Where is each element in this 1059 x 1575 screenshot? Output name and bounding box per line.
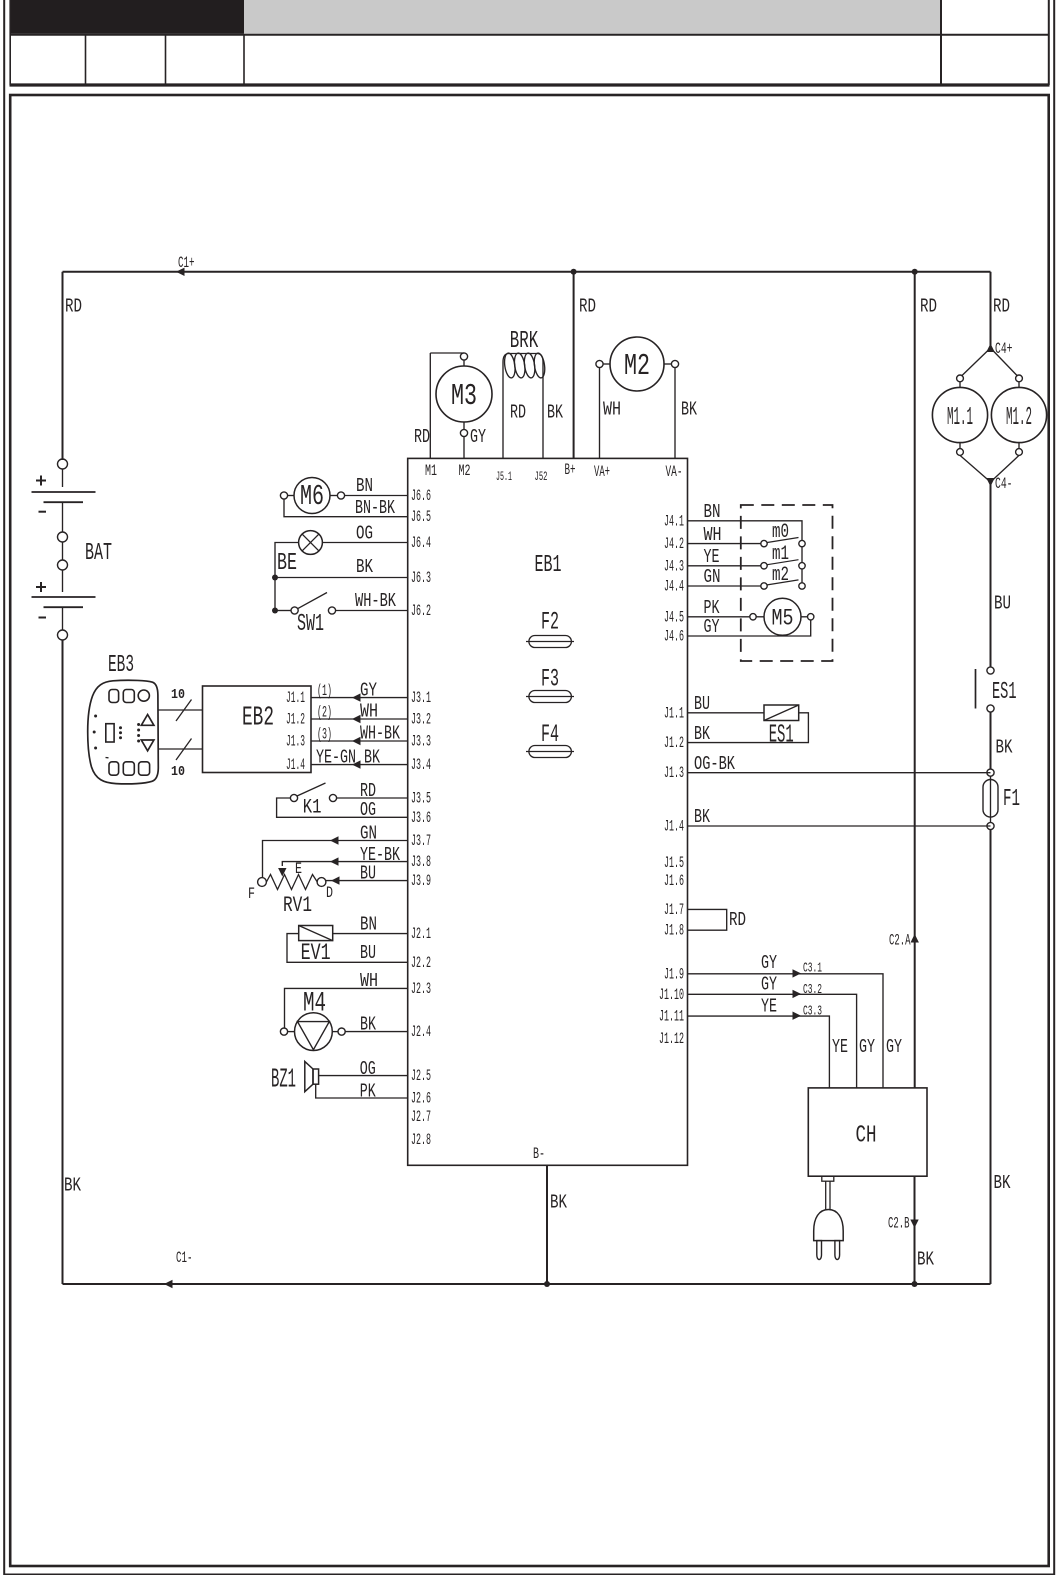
wire BU J1.1 to ES1 coil	[688, 712, 765, 714]
wire BN M6 to J6.6	[345, 495, 408, 497]
svg-text:J6.6: J6.6	[411, 487, 431, 505]
wire BK F1 to bottom rail	[990, 830, 992, 1284]
wire WH J4.2	[688, 543, 761, 545]
wire from M1.1 bottom	[960, 455, 991, 482]
svg-text:C3.1: C3.1	[803, 962, 822, 977]
wire (3) WH-BK EB2 to J3.3	[311, 740, 408, 742]
svg-text:RD: RD	[414, 426, 430, 448]
svg-text:GY: GY	[761, 974, 777, 996]
wire GY J1.9 to C3.1	[688, 974, 884, 1088]
switch ES1	[976, 667, 1017, 712]
wire C1+ top rail	[63, 271, 991, 273]
wire GY J4.6	[688, 620, 811, 636]
svg-text:ES1: ES1	[769, 720, 794, 750]
svg-text:M1: M1	[425, 462, 437, 480]
svg-text:BU: BU	[360, 862, 376, 884]
svg-text:RD: RD	[579, 296, 596, 318]
svg-text:J6.5: J6.5	[411, 508, 431, 526]
wire BK M4 to J2.4	[345, 1031, 408, 1033]
svg-text:YE: YE	[832, 1036, 848, 1058]
svg-text:VA+: VA+	[594, 463, 610, 481]
wire C2.B BK charger to bottom rail	[914, 1176, 916, 1284]
svg-text:J1.7: J1.7	[664, 901, 684, 919]
module EB2	[203, 686, 312, 774]
svg-text:C2.A: C2.A	[889, 932, 911, 950]
svg-text:J2.2: J2.2	[411, 954, 431, 972]
svg-text:J4.6: J4.6	[664, 628, 684, 646]
svg-text:BN-BK: BN-BK	[355, 497, 395, 519]
svg-text:PK: PK	[360, 1081, 376, 1103]
wire VA+ WH	[599, 368, 601, 459]
svg-text:J1.3: J1.3	[286, 733, 305, 751]
fuse F3	[526, 665, 574, 703]
pump M4	[280, 988, 345, 1050]
svg-text:J2.4: J2.4	[411, 1023, 431, 1041]
svg-text:BAT: BAT	[85, 540, 112, 567]
switch K1	[290, 783, 336, 820]
display unit EB3	[88, 652, 159, 784]
wire m0-m1 link	[801, 547, 803, 563]
svg-text:J4.1: J4.1	[664, 512, 684, 530]
wire WH J2.3	[285, 988, 408, 1028]
svg-text:J1.4: J1.4	[664, 818, 684, 836]
relay coil ES1	[764, 705, 799, 750]
svg-text:J3.9: J3.9	[411, 872, 431, 890]
svg-text:J4.5: J4.5	[664, 608, 684, 626]
svg-text:BK: BK	[996, 737, 1013, 759]
svg-text:WH-BK: WH-BK	[355, 590, 396, 612]
svg-text:C1+: C1+	[178, 254, 195, 272]
wire YE J1.11 to C3.3	[688, 1016, 830, 1088]
wire left rail RD battery positive	[62, 272, 64, 460]
EB1 left pin labels	[411, 487, 431, 1149]
wire YE J4.3	[688, 565, 761, 567]
wire VA- BK	[674, 368, 676, 459]
svg-text:J3.4: J3.4	[411, 756, 431, 774]
svg-text:GY: GY	[360, 679, 377, 701]
dashed enclosure M5	[741, 505, 833, 661]
wire OG BE to J6.4	[322, 542, 407, 544]
svg-text:J1.5: J1.5	[664, 854, 684, 872]
svg-text:C3.3: C3.3	[803, 1005, 822, 1020]
svg-text:BZ1: BZ1	[271, 1066, 296, 1096]
motor M6	[280, 478, 344, 514]
fuse F1	[983, 769, 1020, 830]
wire BK B- to bottom rail	[546, 1165, 548, 1284]
wire BU to ES1	[990, 482, 992, 667]
wire BK J1.4 to F1 bottom	[688, 825, 991, 827]
wire GN J4.4	[688, 585, 761, 587]
switch m0	[761, 521, 805, 547]
switch m2	[761, 564, 805, 589]
svg-text:C3.2: C3.2	[803, 983, 822, 998]
wire BK ES1 coil to J1.2	[688, 713, 809, 743]
svg-text:C4-: C4-	[995, 475, 1013, 493]
svg-text:J1.6: J1.6	[664, 872, 684, 890]
svg-text:GY: GY	[470, 426, 486, 448]
wire BN EV1 to J2.1	[333, 933, 408, 935]
bus slash lower	[176, 739, 192, 761]
bus slash upper	[176, 700, 192, 722]
svg-text:C1-: C1-	[176, 1249, 193, 1267]
svg-text:J1.3: J1.3	[664, 764, 684, 782]
svg-text:EB2: EB2	[242, 704, 274, 734]
svg-text:BU: BU	[360, 942, 376, 964]
jumper J1.7-J1.8 RD	[688, 909, 747, 931]
svg-text:F4: F4	[541, 720, 559, 749]
wire OG-BK J1.3 to F1	[688, 772, 991, 774]
svg-text:J3.3: J3.3	[411, 733, 431, 751]
svg-text:GY: GY	[761, 952, 777, 974]
plug P1	[814, 1176, 844, 1259]
svg-text:BN: BN	[356, 475, 373, 497]
svg-text:J1.10: J1.10	[659, 986, 684, 1004]
wire EB3 to EB2 lower	[158, 748, 202, 750]
svg-text:WH: WH	[603, 399, 621, 421]
wire (1) GY EB2 to J3.1	[311, 697, 408, 699]
wire PK BZ1 to J2.6	[316, 1084, 408, 1098]
svg-text:BU: BU	[694, 693, 710, 715]
svg-text:J4.3: J4.3	[664, 557, 684, 575]
buzzer BZ1	[271, 1062, 319, 1096]
svg-text:BK: BK	[550, 1192, 567, 1214]
wire BE left down	[275, 543, 299, 611]
svg-text:YE-GN: YE-GN	[316, 746, 356, 768]
svg-text:J52: J52	[535, 469, 548, 484]
svg-text:M2: M2	[624, 349, 650, 384]
wire J5.1 RD	[502, 376, 504, 458]
svg-text:10: 10	[171, 687, 185, 703]
wire BK to J6.3	[275, 577, 408, 579]
svg-text:J2.5: J2.5	[411, 1067, 431, 1085]
svg-text:10: 10	[171, 764, 185, 780]
svg-text:J1.1: J1.1	[286, 689, 305, 707]
svg-text:B+: B+	[565, 461, 576, 479]
svg-text:BN: BN	[360, 914, 377, 936]
svg-text:WH: WH	[360, 970, 378, 992]
charger CH	[808, 1088, 927, 1176]
wire to M1.2 top	[991, 348, 1018, 376]
wire EB3 to EB2 upper	[158, 709, 202, 711]
EB1 right pin labels	[659, 512, 684, 1048]
svg-text:J3.5: J3.5	[411, 790, 431, 808]
svg-text:J1.8: J1.8	[664, 922, 684, 940]
wire RD K1 to J3.5	[337, 797, 408, 799]
node C1+	[176, 268, 185, 276]
svg-text:GN: GN	[360, 823, 377, 845]
wire C2.A vertical RD	[914, 272, 916, 1088]
svg-text:J1.4: J1.4	[286, 756, 305, 774]
svg-text:GY: GY	[859, 1036, 875, 1058]
wire PK J4.5	[688, 616, 750, 618]
battery BAT	[32, 459, 113, 640]
node C2.A	[911, 934, 919, 943]
relay EV1	[299, 926, 333, 967]
lamp BE	[277, 531, 322, 577]
svg-text:M1.2: M1.2	[1006, 402, 1032, 432]
svg-text:J1.9: J1.9	[664, 965, 684, 983]
svg-text:BK: BK	[360, 1014, 376, 1036]
svg-text:OG-BK: OG-BK	[694, 753, 735, 775]
svg-text:RD: RD	[729, 909, 746, 931]
wire from M1.2 bottom	[991, 455, 1020, 482]
svg-text:J1.1: J1.1	[664, 704, 684, 722]
svg-text:(1): (1)	[317, 682, 332, 700]
motor M5	[750, 598, 814, 635]
svg-text:F2: F2	[541, 608, 559, 637]
svg-text:J2.7: J2.7	[411, 1108, 431, 1126]
svg-text:B-: B-	[533, 1145, 545, 1163]
switch m1	[761, 543, 805, 569]
svg-text:BK: BK	[694, 806, 710, 828]
fuse F2	[526, 608, 574, 648]
svg-text:C2.B: C2.B	[888, 1215, 910, 1233]
motor M3	[436, 353, 492, 437]
svg-text:OG: OG	[360, 1058, 376, 1080]
wire left rail BK battery negative	[62, 640, 64, 1284]
svg-text:RD: RD	[510, 402, 526, 424]
svg-text:VA-: VA-	[666, 463, 683, 481]
svg-text:K1: K1	[303, 797, 322, 820]
motor M2	[596, 337, 679, 391]
svg-text:BK: BK	[64, 1175, 81, 1197]
svg-text:J3.2: J3.2	[411, 711, 431, 729]
node C4+	[986, 344, 994, 353]
svg-text:D: D	[326, 884, 333, 902]
svg-text:BN: BN	[704, 501, 721, 523]
svg-text:SW1: SW1	[297, 611, 324, 638]
svg-text:J6.4: J6.4	[411, 534, 431, 552]
svg-text:EB1: EB1	[535, 552, 562, 579]
wire J52 BK	[542, 376, 544, 458]
fuse F4	[526, 720, 574, 758]
svg-text:M1.1: M1.1	[947, 402, 973, 432]
svg-text:GY: GY	[886, 1036, 902, 1058]
wire GY J1.10 to C3.2	[688, 994, 857, 1088]
svg-text:E: E	[295, 860, 302, 878]
node C1-	[164, 1280, 173, 1288]
svg-text:J4.4: J4.4	[664, 578, 684, 596]
svg-text:J2.3: J2.3	[411, 980, 431, 998]
node C4-	[986, 478, 994, 487]
wire YE-BK J3.8 to RV1 wiper	[282, 862, 407, 866]
wire C1- bottom rail	[63, 1283, 991, 1285]
svg-text:GN: GN	[704, 566, 721, 588]
wire m1-m2 link	[801, 569, 803, 583]
wire WH-BK SW1 to J6.2	[336, 610, 408, 612]
svg-text:RD: RD	[65, 296, 82, 318]
svg-text:ES1: ES1	[992, 679, 1017, 706]
wire B+ RD	[573, 272, 575, 459]
svg-text:BK: BK	[547, 402, 563, 424]
svg-text:BK: BK	[917, 1249, 934, 1271]
svg-text:J4.2: J4.2	[664, 535, 684, 553]
wire BN J4.1	[688, 521, 803, 540]
svg-text:WH: WH	[360, 701, 378, 723]
svg-text:CH: CH	[856, 1123, 877, 1150]
wire M2 pin GY	[463, 437, 465, 459]
wire to M1.1 top	[962, 348, 991, 376]
svg-text:OG: OG	[360, 799, 376, 821]
svg-text:J3.8: J3.8	[411, 853, 431, 871]
svg-text:GY: GY	[704, 616, 720, 638]
svg-text:J1.11: J1.11	[659, 1008, 684, 1026]
svg-text:BRK: BRK	[510, 328, 539, 355]
svg-text:J5.1: J5.1	[496, 469, 512, 484]
svg-text:BK: BK	[694, 723, 710, 745]
wire BK ES1 to F1	[990, 712, 992, 769]
svg-text:J3.6: J3.6	[411, 809, 431, 827]
svg-text:J2.1: J2.1	[411, 925, 431, 943]
svg-text:BU: BU	[994, 593, 1011, 615]
EB1 top pin labels	[425, 461, 683, 484]
svg-text:J3.7: J3.7	[411, 832, 431, 850]
svg-text:OG: OG	[356, 523, 373, 545]
node BE junction	[272, 575, 278, 581]
wire OG BZ1 to J2.5	[319, 1075, 408, 1077]
controller EB1	[408, 458, 688, 1165]
wire M1 pin to M3	[429, 353, 431, 458]
svg-text:M2: M2	[459, 462, 471, 480]
svg-text:BK: BK	[364, 746, 380, 768]
svg-text:J1.2: J1.2	[664, 734, 684, 752]
inductor BRK	[503, 328, 546, 379]
svg-text:F: F	[248, 885, 255, 903]
svg-text:RV1: RV1	[283, 893, 312, 918]
svg-text:F3: F3	[541, 665, 559, 694]
wire BU J3.9 to RV1 D	[326, 880, 408, 882]
svg-text:YE: YE	[704, 546, 720, 568]
svg-text:J2.8: J2.8	[411, 1131, 431, 1149]
svg-text:BK: BK	[681, 399, 697, 421]
motor M1.2	[991, 375, 1046, 455]
potentiometer RV1	[248, 860, 333, 918]
svg-text:RD: RD	[920, 296, 937, 318]
svg-text:(3): (3)	[317, 726, 332, 744]
svg-text:EB3: EB3	[108, 652, 134, 679]
motor M1.1	[932, 375, 987, 455]
svg-text:YE: YE	[761, 996, 777, 1018]
svg-text:J1.12: J1.12	[659, 1030, 684, 1048]
svg-text:BE: BE	[277, 550, 297, 577]
wire BU EV1 to J2.2	[287, 934, 408, 963]
svg-text:BK: BK	[356, 556, 373, 578]
wire (2) WH EB2 to J3.2	[311, 718, 408, 720]
wire GN J3.7 to RV1 F	[263, 841, 408, 878]
wire BN-BK M6 to J6.5	[284, 499, 408, 517]
svg-text:M6: M6	[300, 480, 324, 513]
svg-text:J6.3: J6.3	[411, 569, 431, 587]
wire right rail RD	[990, 272, 992, 346]
svg-text:M5: M5	[772, 606, 794, 632]
svg-text:F1: F1	[1003, 786, 1020, 813]
svg-text:RD: RD	[993, 296, 1010, 318]
svg-text:(2): (2)	[317, 704, 332, 722]
switch SW1	[272, 593, 336, 639]
svg-text:BK: BK	[994, 1172, 1011, 1194]
svg-text:J3.1: J3.1	[411, 689, 431, 707]
svg-text:M3: M3	[451, 379, 477, 414]
node C2.B	[910, 1220, 918, 1229]
wire OG K1 to J3.6	[277, 798, 408, 817]
svg-text:WH-BK: WH-BK	[360, 723, 400, 745]
svg-text:WH: WH	[704, 524, 722, 546]
wire YE-GN BK EB2 to J3.4	[311, 764, 408, 766]
svg-text:J6.2: J6.2	[411, 602, 431, 620]
svg-text:J2.6: J2.6	[411, 1090, 431, 1108]
svg-text:J1.2: J1.2	[286, 711, 305, 729]
